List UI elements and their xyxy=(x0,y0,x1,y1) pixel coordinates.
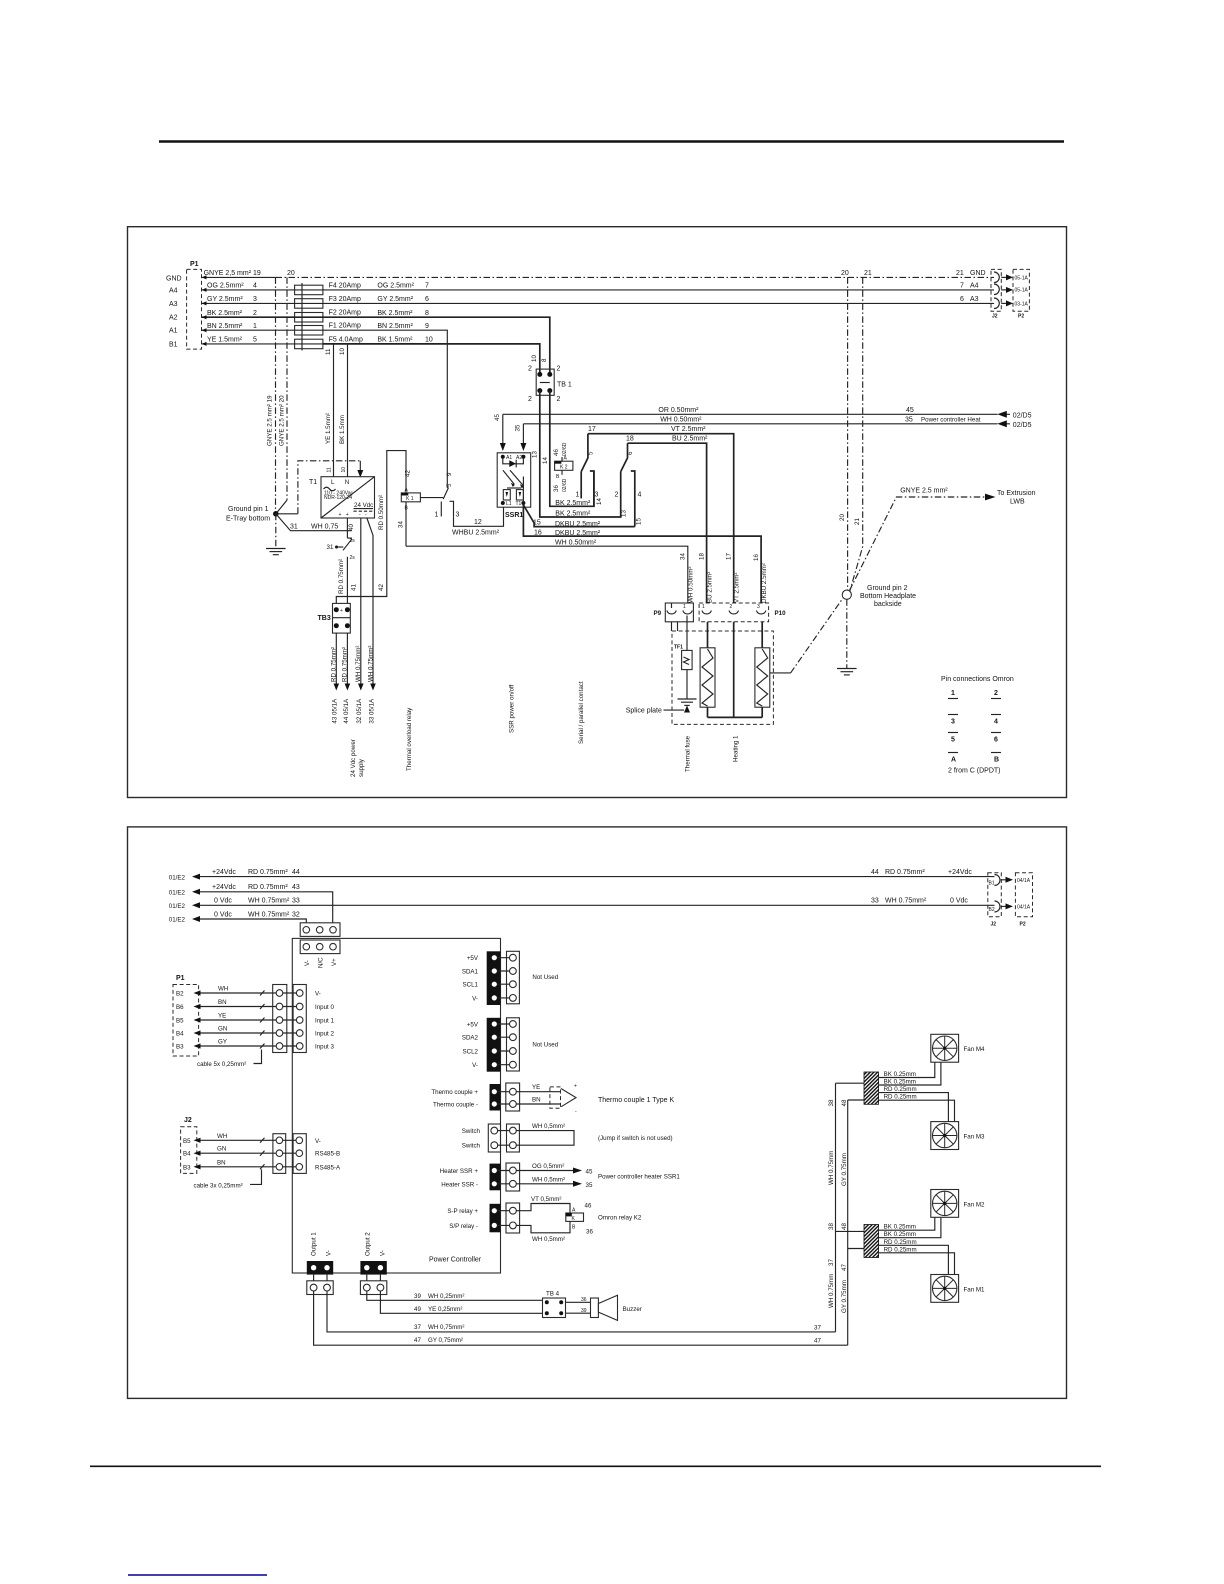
svg-text:V-: V- xyxy=(326,1250,333,1256)
ground symbol splice plate xyxy=(678,699,697,713)
svg-text:Pin connections Omron: Pin connections Omron xyxy=(941,676,1014,683)
svg-text:T1: T1 xyxy=(309,479,317,486)
earth wire 20 dash-dot vertical xyxy=(839,277,848,590)
svg-text:5: 5 xyxy=(446,483,453,487)
svg-text:33 05/1A: 33 05/1A xyxy=(369,698,376,724)
svg-text:E-Tray bottom: E-Tray bottom xyxy=(226,516,270,523)
svg-text:WH 0,25mm²: WH 0,25mm² xyxy=(428,1293,464,1300)
svg-text:S-P relay +: S-P relay + xyxy=(447,1208,478,1215)
svg-text:cable 5x 0,25mm²: cable 5x 0,25mm² xyxy=(197,1061,246,1068)
svg-text:BK 1.5mm: BK 1.5mm xyxy=(339,415,346,444)
svg-text:37: 37 xyxy=(814,1324,821,1331)
riser WH 0.75mm 37-38 xyxy=(828,1083,836,1332)
svg-text:Input 3: Input 3 xyxy=(315,1044,334,1051)
svg-text:GY 0.75mm: GY 0.75mm xyxy=(841,1280,848,1313)
svg-text:YE: YE xyxy=(218,1013,226,1020)
top schematic panel frame xyxy=(128,227,1067,798)
svg-text:TB 4: TB 4 xyxy=(546,1290,560,1297)
svg-text:SCL1: SCL1 xyxy=(463,982,479,989)
svg-text:33: 33 xyxy=(292,898,300,905)
svg-text:WH 0,5mm²: WH 0,5mm² xyxy=(532,1123,565,1130)
svg-text:05-1A: 05-1A xyxy=(1015,288,1029,294)
svg-text:Switch: Switch xyxy=(462,1143,481,1150)
svg-text:45: 45 xyxy=(906,407,914,414)
svg-text:B: B xyxy=(994,757,999,764)
svg-text:B1: B1 xyxy=(169,341,178,348)
svg-text:14: 14 xyxy=(596,498,603,505)
svg-text:RD 0.25mm: RD 0.25mm xyxy=(884,1246,917,1253)
connector J2 right (top panel) xyxy=(991,269,1001,319)
svg-text:Power controller heater SSR1: Power controller heater SSR1 xyxy=(598,1173,680,1180)
svg-text:B2: B2 xyxy=(176,991,184,998)
svg-text:42: 42 xyxy=(405,470,412,477)
wire K1 to contact pole 1 xyxy=(420,497,443,499)
thermal fuse TF1 xyxy=(674,645,692,670)
svg-text:RD 0.25mm: RD 0.25mm xyxy=(884,1239,917,1246)
svg-text:B6: B6 xyxy=(176,1004,184,1011)
svg-text:2: 2 xyxy=(528,396,532,403)
heater earth lead xyxy=(770,672,791,674)
svg-text:Ground pin 2: Ground pin 2 xyxy=(867,585,908,592)
wire 34 K1-B down xyxy=(398,502,407,546)
node ground pin 2 xyxy=(842,585,916,608)
svg-text:WH 0.75mm²: WH 0.75mm² xyxy=(248,911,290,918)
svg-text:1: 1 xyxy=(702,604,705,610)
svg-text:37: 37 xyxy=(828,1259,835,1266)
svg-text:1: 1 xyxy=(576,491,580,498)
wire BK 2.5mm2 8 to TB1 xyxy=(323,310,550,375)
svg-text:OG 2.5mm²: OG 2.5mm² xyxy=(207,283,244,290)
svg-text:A: A xyxy=(951,757,956,764)
svg-text:RD 0.75mm²: RD 0.75mm² xyxy=(342,647,349,682)
svg-text:Thermo couple 1 Type K: Thermo couple 1 Type K xyxy=(598,1097,674,1104)
wire TF1 to splice ground xyxy=(686,670,688,699)
wire GY 2.5mm2 6 to J2 xyxy=(323,296,994,303)
svg-text:F4 20Amp: F4 20Amp xyxy=(329,282,361,289)
svg-text:WH 0,75: WH 0,75 xyxy=(311,523,338,530)
heating element 1 xyxy=(700,622,715,718)
arrows J2 to P2 (top panel) xyxy=(1001,274,1013,306)
power supply T1 xyxy=(309,477,375,518)
svg-text:03-1A: 03-1A xyxy=(1015,302,1029,308)
label cable 3x 0,25mm2 xyxy=(194,1169,262,1189)
wire 35 drop into SSR1 A2 xyxy=(515,424,527,451)
svg-text:37: 37 xyxy=(414,1324,421,1331)
splice 1 wire BK2 to fan M4 xyxy=(879,1062,941,1085)
svg-text:2: 2 xyxy=(557,366,561,373)
heating element 2 xyxy=(755,622,770,718)
wire A4 OG 4 xyxy=(202,283,295,292)
svg-text:BK 2.5mm²: BK 2.5mm² xyxy=(555,500,591,507)
svg-text:Fan M2: Fan M2 xyxy=(964,1201,986,1208)
svg-text:8: 8 xyxy=(541,358,548,362)
svg-text:8: 8 xyxy=(425,310,429,317)
terminal block TB4 xyxy=(543,1290,566,1317)
wire BN 2.5mm2 9 xyxy=(323,323,453,488)
input terminal strip A xyxy=(273,985,287,1053)
wire 42 RD 0.50 from K1 to TB3 xyxy=(336,451,411,604)
svg-text:2s: 2s xyxy=(350,555,356,561)
svg-text:RD 0.50mm²: RD 0.50mm² xyxy=(378,495,385,530)
svg-text:BN: BN xyxy=(532,1097,541,1104)
svg-text:36: 36 xyxy=(553,485,560,492)
svg-text:0 Vdc: 0 Vdc xyxy=(950,898,968,905)
bottom schematic panel frame xyxy=(128,827,1067,1399)
rs485 terminal strip B xyxy=(283,1134,307,1174)
svg-text:+: + xyxy=(339,512,342,518)
wire VT 2.5mm2 17 xyxy=(588,426,734,603)
earth wire 19 vertical dash-dot to ground pin 1 xyxy=(267,277,276,513)
svg-text:+24Vdc: +24Vdc xyxy=(948,869,972,876)
svg-text:GNYE 2.5 mm² 19: GNYE 2.5 mm² 19 xyxy=(267,395,274,446)
svg-text:B4: B4 xyxy=(183,1151,191,1158)
svg-text:0 Vdc: 0 Vdc xyxy=(214,898,232,905)
relay coil K2 xyxy=(553,442,573,492)
thermocouple strip xyxy=(431,1084,500,1111)
svg-text:45: 45 xyxy=(494,414,501,421)
power controller box xyxy=(292,938,500,1273)
svg-text:13: 13 xyxy=(621,510,628,517)
svg-text:V+: V+ xyxy=(331,958,338,966)
svg-text:1: 1 xyxy=(951,690,955,697)
svg-text:GND: GND xyxy=(970,270,986,277)
svg-text:TB 1: TB 1 xyxy=(557,382,572,389)
svg-text:15: 15 xyxy=(636,518,643,525)
svg-text:2 from C (DPDT): 2 from C (DPDT) xyxy=(948,768,1001,775)
wire 33 0Vdc xyxy=(169,898,995,911)
svg-text:Power controller Heat: Power controller Heat xyxy=(921,416,981,423)
arrows J2 to P2 (bottom panel) xyxy=(1001,877,1013,910)
wire P1-B4 GN xyxy=(194,1026,277,1036)
svg-text:02/D5: 02/D5 xyxy=(1013,412,1032,419)
svg-text:J2: J2 xyxy=(991,922,997,928)
svg-text:Not Used: Not Used xyxy=(532,1042,558,1049)
svg-text:B5: B5 xyxy=(176,1018,184,1025)
svg-text:Heater SSR +: Heater SSR + xyxy=(440,1168,479,1175)
svg-text:44: 44 xyxy=(871,869,879,876)
svg-text:24 Vdc power: 24 Vdc power xyxy=(350,739,357,777)
splice 1 wire BK to fan M4 xyxy=(879,1062,935,1078)
riser GY 0.75mm 47-48 xyxy=(841,1099,848,1345)
svg-text:GNYE 2,5 mm² 19: GNYE 2,5 mm² 19 xyxy=(204,270,261,277)
svg-text:WH 0,75mm²: WH 0,75mm² xyxy=(428,1324,464,1331)
svg-text:P2: P2 xyxy=(1020,922,1026,928)
svg-text:RD 0.75mm²: RD 0.75mm² xyxy=(885,869,925,876)
svg-text:05-1A: 05-1A xyxy=(1015,276,1029,282)
contact pole 6 riser xyxy=(621,443,634,471)
terminal block V- N/C V+ xyxy=(300,923,340,968)
svg-text:T1: T1 xyxy=(516,501,522,507)
svg-text:20: 20 xyxy=(839,514,846,521)
svg-text:Serial / parallel contact: Serial / parallel contact xyxy=(578,681,585,744)
svg-text:BK 2.5mm²: BK 2.5mm² xyxy=(377,310,413,317)
svg-text:WH 0.75mm²: WH 0.75mm² xyxy=(355,646,362,682)
rs485 terminal strip A xyxy=(273,1134,286,1174)
svg-text:43 05/1A: 43 05/1A xyxy=(332,698,339,724)
svg-text:Heater SSR -: Heater SSR - xyxy=(441,1181,478,1188)
contact pole 3 xyxy=(590,471,599,506)
i2c group 1 socket xyxy=(497,951,559,1004)
wire 11 YE to T1 L xyxy=(325,344,334,477)
svg-text:BK 0.25mm: BK 0.25mm xyxy=(884,1071,916,1078)
connector P2 right (top panel) xyxy=(1013,269,1029,319)
earth wire 20 vertical dash-dot branch xyxy=(277,277,288,513)
svg-text:Thermal fuse: Thermal fuse xyxy=(685,735,692,772)
splice 1 wire RD2 to fan M3 xyxy=(879,1094,955,1122)
wire A3 GY 3 xyxy=(202,296,295,305)
fan M4 xyxy=(931,1034,985,1062)
wire P1-B3 GY xyxy=(194,1039,277,1049)
svg-text:backside: backside xyxy=(874,601,902,608)
solid state relay SSR1 xyxy=(497,453,531,519)
svg-text:7: 7 xyxy=(960,283,964,290)
svg-text:WH 0.75mm²: WH 0.75mm² xyxy=(885,898,927,905)
svg-text:Omron relay K2: Omron relay K2 xyxy=(598,1215,642,1222)
label splice plate xyxy=(626,708,684,715)
svg-text:39: 39 xyxy=(414,1293,421,1300)
splice 2 wire RD to fan M1 xyxy=(879,1239,949,1275)
connector P1 (bottom panel) xyxy=(173,975,199,1056)
s-p relay strip xyxy=(447,1204,500,1233)
svg-text:RD 0.75mm²: RD 0.75mm² xyxy=(248,884,288,891)
wire 40 T1 V+ down to thermal switch xyxy=(347,518,354,538)
svg-text:BK 2.5mm²: BK 2.5mm² xyxy=(207,310,243,317)
svg-text:Output 1: Output 1 xyxy=(311,1232,318,1256)
svg-text:GY 2.5mm²: GY 2.5mm² xyxy=(377,296,413,303)
svg-text:18: 18 xyxy=(626,436,634,443)
thermocouple 1 type K symbol xyxy=(550,1084,675,1116)
svg-text:SDA1: SDA1 xyxy=(462,969,479,976)
wire WH 0.5mm2 35 xyxy=(516,1173,680,1189)
wire GND GNYE 19 xyxy=(202,270,276,279)
svg-text:OG 2.5mm²: OG 2.5mm² xyxy=(377,283,414,290)
svg-text:01/E2: 01/E2 xyxy=(169,917,186,924)
svg-text:YE 0,25mm²: YE 0,25mm² xyxy=(428,1306,462,1313)
contact pole 3 xyxy=(435,501,460,518)
svg-text:10: 10 xyxy=(425,337,433,344)
node ground pin 1 xyxy=(226,506,279,523)
wire heater bottom bus xyxy=(708,716,763,718)
svg-text:4: 4 xyxy=(253,283,257,290)
svg-text:48: 48 xyxy=(841,1099,848,1106)
svg-text:+: + xyxy=(574,1084,577,1090)
svg-text:P10: P10 xyxy=(775,610,787,617)
svg-text:01/E2: 01/E2 xyxy=(169,903,186,910)
fuse F4 20Amp xyxy=(295,282,361,294)
terminal block TB3 xyxy=(318,603,351,633)
svg-text:Fan M4: Fan M4 xyxy=(964,1046,986,1053)
svg-text:Fan M3: Fan M3 xyxy=(964,1134,986,1141)
connector J2 right (bottom panel) xyxy=(988,873,1002,928)
svg-text:Power Controller: Power Controller xyxy=(429,1257,482,1264)
svg-text:V-: V- xyxy=(304,960,311,966)
svg-text:SCL2: SCL2 xyxy=(463,1049,479,1056)
wire 33 WH from T1 minus xyxy=(367,518,373,684)
wire BK 1.5mm2 10 to TB1 xyxy=(323,337,540,375)
svg-text:6: 6 xyxy=(425,296,429,303)
svg-text:3: 3 xyxy=(456,512,460,519)
svg-text:L1: L1 xyxy=(506,501,512,507)
wire P10 pin2 down xyxy=(733,622,735,718)
thermal switch 31s xyxy=(327,538,356,561)
svg-text:38: 38 xyxy=(828,1223,835,1230)
i2c group 2 socket xyxy=(497,1018,559,1071)
svg-text:BN 2.5mm²: BN 2.5mm² xyxy=(377,323,413,330)
svg-text:supply: supply xyxy=(358,758,365,777)
svg-text:WHBU 2.5mm²: WHBU 2.5mm² xyxy=(452,530,500,537)
wire P9 pin2 to TF1 xyxy=(686,616,688,651)
wire 49 YE 0.25mm2 xyxy=(380,1291,542,1313)
svg-text:WH 0.75mm²: WH 0.75mm² xyxy=(248,898,290,905)
svg-text:WH: WH xyxy=(218,986,228,993)
svg-text:Bottom Headplate: Bottom Headplate xyxy=(860,593,916,600)
wire VT 0.5mm2 to K2 A xyxy=(516,1196,592,1214)
splice 1 wire RD to fan M3 xyxy=(879,1086,949,1122)
ground symbol 2 xyxy=(837,669,857,675)
svg-text:5: 5 xyxy=(951,737,955,744)
svg-text:A4: A4 xyxy=(970,283,979,290)
svg-text:3: 3 xyxy=(757,604,760,610)
wire J2-B4 GN xyxy=(194,1146,277,1156)
svg-text:WH 0.50mm²: WH 0.50mm² xyxy=(555,540,597,547)
splice 2 wire BK to fan M2 xyxy=(879,1217,935,1230)
wire P1-B2 WH xyxy=(194,986,277,996)
wire 34 WH 0.50mm2 to P9 xyxy=(406,540,688,603)
svg-text:49: 49 xyxy=(414,1306,421,1313)
svg-text:Thermo couple +: Thermo couple + xyxy=(431,1089,478,1096)
svg-text:20: 20 xyxy=(841,270,849,277)
svg-text:NDR-120-24: NDR-120-24 xyxy=(324,495,352,501)
svg-text:Switch: Switch xyxy=(462,1128,481,1135)
wire 47 GY 0.75mm2 xyxy=(314,1291,848,1345)
svg-text:5: 5 xyxy=(588,451,595,455)
wire 12 WHBU 2.5mm2 xyxy=(452,507,504,536)
wire 13 from TB1 xyxy=(532,391,628,518)
wire 44 +24Vdc xyxy=(169,869,995,881)
wire 31 WH 0.75 xyxy=(276,514,352,531)
terminal block TB1 xyxy=(528,366,572,404)
fan M3 xyxy=(931,1122,985,1150)
pin connections Omron legend xyxy=(941,676,1014,775)
svg-text:A4: A4 xyxy=(169,288,178,295)
arrows down 43 44 32 33 xyxy=(334,684,340,691)
svg-text:48: 48 xyxy=(841,1223,848,1230)
earth wire below ground pin 2 xyxy=(846,599,848,668)
svg-text:GNYE 2.5 mm²: GNYE 2.5 mm² xyxy=(900,488,948,495)
s-p relay socket xyxy=(497,1203,520,1233)
footer rule line xyxy=(90,1465,1101,1467)
svg-text:WH 0.75mm: WH 0.75mm xyxy=(828,1274,835,1308)
splice 2 wire RD2 to fan M1 xyxy=(879,1246,955,1274)
input labels xyxy=(315,991,334,1051)
svg-text:Not Used: Not Used xyxy=(532,974,558,981)
svg-text:6: 6 xyxy=(627,451,634,455)
connector P10 xyxy=(699,603,786,622)
svg-text:GN: GN xyxy=(218,1026,227,1033)
svg-text:Thermal overload relay: Thermal overload relay xyxy=(406,707,413,771)
wire 41 RD 0.75 to TB3 xyxy=(338,557,358,604)
fan M1 xyxy=(931,1275,985,1303)
svg-text:WH 0,5mm²: WH 0,5mm² xyxy=(532,1236,565,1243)
wire GNYE 2.5mm2 to extrusion xyxy=(850,488,1036,591)
wire 37 WH 0.75mm2 xyxy=(327,1291,836,1332)
svg-text:18: 18 xyxy=(699,553,706,560)
svg-text:46: 46 xyxy=(553,449,560,456)
svg-text:Input 1: Input 1 xyxy=(315,1018,334,1025)
fuse F1 20Amp xyxy=(295,323,361,335)
svg-text:N: N xyxy=(345,479,349,486)
wire WH 0.50mm2 35 xyxy=(523,416,1031,429)
svg-text:10: 10 xyxy=(531,355,538,362)
buzzer xyxy=(566,1295,642,1320)
svg-text:A2: A2 xyxy=(169,315,178,322)
wire 32 0Vdc xyxy=(169,911,306,923)
earth wire 21 dash-dot vertical xyxy=(850,277,863,591)
heater ssr strip xyxy=(440,1164,501,1191)
svg-text:7: 7 xyxy=(425,283,429,290)
svg-text:Fan M1: Fan M1 xyxy=(964,1286,986,1293)
svg-text:43: 43 xyxy=(292,884,300,891)
svg-text:BN: BN xyxy=(217,1159,226,1166)
pin labels 21 GND / 7 A4 / 6 A3 xyxy=(956,270,986,303)
svg-text:F1 20Amp: F1 20Amp xyxy=(329,323,361,330)
wire 15 DKBU 2.5mm2 xyxy=(523,505,634,528)
wire WH 0.5mm2 to K2 B xyxy=(516,1221,593,1243)
wires TB3 down to arrows 43/44 xyxy=(335,633,337,684)
svg-text:36: 36 xyxy=(586,1229,593,1236)
svg-text:B3: B3 xyxy=(176,1044,184,1051)
wire OR 0.50mm2 45 xyxy=(503,407,1032,420)
svg-text:YE 1.5mm²: YE 1.5mm² xyxy=(325,413,332,444)
svg-text:44: 44 xyxy=(292,869,300,876)
label cable 5x 0,25mm2 xyxy=(197,1050,262,1069)
svg-text:BU 2.5mm²: BU 2.5mm² xyxy=(707,572,714,603)
svg-text:BN 2.5mm²: BN 2.5mm² xyxy=(207,323,243,330)
svg-text:N/C: N/C xyxy=(318,957,325,968)
wire 43 +24Vdc xyxy=(169,884,333,923)
svg-text:P1: P1 xyxy=(190,261,199,268)
svg-text:21: 21 xyxy=(864,270,872,277)
svg-text:A3: A3 xyxy=(169,301,178,308)
output 1 terminal xyxy=(307,1232,333,1295)
svg-text:47: 47 xyxy=(814,1338,821,1345)
svg-text:02/6D: 02/6D xyxy=(562,478,568,492)
top rule line xyxy=(159,140,1064,142)
svg-text:A3: A3 xyxy=(970,296,979,303)
wire P1-B5 YE xyxy=(194,1013,277,1023)
contact arm 5/9 xyxy=(441,483,453,517)
svg-text:42: 42 xyxy=(378,584,385,591)
svg-text:WH 0.75mm²: WH 0.75mm² xyxy=(367,646,374,682)
wire 32 WH from T1 minus xyxy=(360,518,362,684)
svg-text:RS485-B: RS485-B xyxy=(315,1151,340,1158)
svg-text:F3 20Amp: F3 20Amp xyxy=(329,296,361,303)
svg-text:21: 21 xyxy=(956,270,964,277)
svg-text:VT 2.5mm²: VT 2.5mm² xyxy=(671,426,706,433)
svg-text:V-: V- xyxy=(315,991,321,998)
svg-text:BU 2.5mm²: BU 2.5mm² xyxy=(672,436,708,443)
svg-text:V-: V- xyxy=(380,1250,387,1256)
svg-text:1: 1 xyxy=(253,323,257,330)
fuse F2 20Amp xyxy=(295,310,361,322)
rs485 labels xyxy=(315,1138,341,1172)
svg-text:0 Vdc: 0 Vdc xyxy=(214,911,232,918)
svg-text:1: 1 xyxy=(435,512,439,519)
svg-text:2: 2 xyxy=(994,690,998,697)
svg-text:YE 1.5mm²: YE 1.5mm² xyxy=(207,337,243,344)
switch socket left xyxy=(462,1124,501,1152)
svg-text:47: 47 xyxy=(414,1337,421,1344)
